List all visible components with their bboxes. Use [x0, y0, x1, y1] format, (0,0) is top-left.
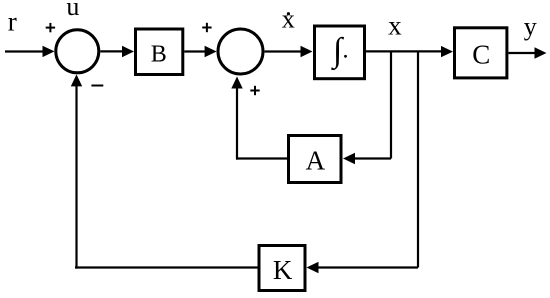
arrow into K	[307, 262, 319, 273]
wire drop from node x to A path	[390, 52, 392, 159]
summing junction S1	[56, 30, 99, 73]
block C	[455, 28, 507, 78]
plus sign at S2 left input	[202, 23, 211, 32]
svg-text:r: r	[8, 7, 17, 37]
arrow into S2	[205, 46, 217, 57]
wire C output	[509, 52, 538, 54]
arrow output y	[535, 47, 547, 58]
plus sign at S1 input	[46, 23, 55, 32]
arrow into integrator	[301, 46, 313, 57]
wire S2 to integrator	[265, 50, 303, 52]
arrow up into S2	[231, 77, 242, 89]
wire riser K to S1	[75, 85, 77, 269]
svg-text:K: K	[273, 255, 293, 285]
block A	[289, 136, 342, 183]
wire S1 to B	[100, 50, 124, 52]
summing junction S2	[218, 29, 263, 74]
svg-text:x: x	[282, 5, 295, 34]
wire riser A to S2	[236, 87, 238, 160]
arrow into B	[122, 46, 134, 57]
block B	[136, 29, 183, 75]
block integrator	[315, 26, 365, 79]
svg-text:y: y	[524, 12, 537, 41]
wire A output	[236, 157, 287, 159]
svg-text:x: x	[388, 11, 402, 41]
arrow into A	[343, 153, 355, 164]
plus sign at S2 bottom input	[250, 86, 259, 95]
block K	[259, 246, 305, 291]
wire integrator to C	[366, 50, 444, 52]
wire into A	[354, 157, 391, 159]
svg-text:B: B	[151, 42, 167, 68]
wire r input	[5, 50, 45, 52]
wire drop from node x to K path	[417, 52, 419, 268]
wire into K	[316, 266, 419, 268]
wire K output	[75, 266, 258, 268]
svg-text:u: u	[66, 0, 79, 21]
wire B to S2	[184, 50, 208, 52]
minus sign at S1 feedback input	[91, 85, 103, 87]
arrow into C	[441, 46, 453, 57]
svg-text:A: A	[306, 146, 326, 176]
arrow up into S1	[71, 74, 82, 86]
svg-text:C: C	[472, 40, 490, 70]
arrow into summing junction S1	[43, 46, 55, 57]
